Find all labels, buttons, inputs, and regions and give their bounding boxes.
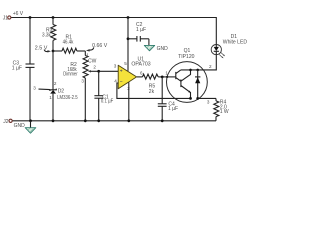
svg-text:GND: GND <box>14 123 26 129</box>
potentiometer R2 (Dimmer) <box>63 51 98 121</box>
capacitor C1 <box>94 71 113 121</box>
svg-text:0.1 µF: 0.1 µF <box>101 99 113 105</box>
svg-text:J1: J1 <box>3 16 9 22</box>
wire bottom ground rail <box>12 120 216 122</box>
svg-text:GND: GND <box>157 46 169 52</box>
svg-text:White LED: White LED <box>223 39 248 45</box>
svg-text:2: 2 <box>209 64 212 69</box>
junction rail at U1 pin2 <box>127 119 130 122</box>
wiper arrow of R2 <box>90 70 99 72</box>
internal protection diode <box>197 70 199 99</box>
ground symbol near C2 <box>144 45 168 52</box>
junction rail at C1 <box>97 119 100 122</box>
junction on rail at R3 branch <box>52 16 55 19</box>
svg-text:D2: D2 <box>58 89 65 95</box>
connector J2 <box>9 119 12 122</box>
wire top rail +6V <box>11 18 217 45</box>
svg-text:46.4k: 46.4k <box>63 40 74 46</box>
base pin 1 entry <box>166 76 168 78</box>
junction node 2.5V <box>52 50 55 53</box>
svg-text:3.3k: 3.3k <box>42 33 51 39</box>
svg-text:+6 V: +6 V <box>13 11 24 17</box>
wire U1 pin4 feedback L <box>117 83 191 98</box>
wire gnd stub <box>30 121 32 128</box>
wire U1 pin5 supply <box>127 18 129 71</box>
svg-text:1: 1 <box>86 53 89 58</box>
junction rail at D2 <box>52 119 55 122</box>
svg-text:3: 3 <box>33 86 36 91</box>
svg-text:2: 2 <box>93 65 96 70</box>
svg-text:6: 6 <box>140 71 143 76</box>
svg-text:3: 3 <box>114 64 117 69</box>
op-amp U1 OPA703 <box>114 57 151 91</box>
capacitor C3 <box>12 61 35 72</box>
wire C3 branch lower <box>29 67 31 120</box>
wire emitter to R4 <box>199 97 217 99</box>
svg-text:2.5 V: 2.5 V <box>35 45 48 51</box>
junction on rail at U1 supply branch <box>127 16 130 19</box>
svg-text:1 µF: 1 µF <box>12 65 22 71</box>
junction C2 tap <box>127 37 130 40</box>
ground symbol bottom <box>25 128 36 134</box>
transistor Q1 TIP120 <box>165 48 207 102</box>
resistor R3 <box>42 18 56 52</box>
svg-text:1: 1 <box>165 71 168 76</box>
svg-text:OPA703: OPA703 <box>131 62 150 68</box>
internal collector rail <box>181 69 204 71</box>
darlington second transistor <box>180 79 182 87</box>
junction wiper node <box>97 70 100 73</box>
zener reference D2 LM336-2.5 <box>33 81 78 121</box>
svg-text:3: 3 <box>81 79 84 84</box>
svg-text:3: 3 <box>207 100 210 105</box>
wire U1 +IN from wiper node <box>99 70 119 72</box>
wire C3 branch upper <box>29 18 31 65</box>
svg-text:5: 5 <box>124 61 127 66</box>
LED emission arrows <box>219 52 224 57</box>
svg-text:1 µF: 1 µF <box>168 106 178 112</box>
pin 3 stub of D2 <box>39 88 50 91</box>
darlington first transistor <box>175 72 177 79</box>
wire D2 branch upper <box>52 51 54 90</box>
svg-text:LM336-2.5: LM336-2.5 <box>57 95 78 101</box>
junction rail at C4 <box>161 119 164 122</box>
resistor R5 <box>137 74 168 95</box>
wire U1 pin2 to ground rail <box>128 82 130 121</box>
connector J1 <box>8 16 11 19</box>
wire C2 to ground <box>148 39 150 45</box>
junction rail at gnd stub <box>29 119 32 122</box>
svg-text:1 W: 1 W <box>220 109 229 115</box>
svg-text:1: 1 <box>49 95 52 100</box>
node 0.66 V callout <box>86 43 108 51</box>
svg-text:TIP120: TIP120 <box>178 54 195 60</box>
emitter node junctions <box>189 97 192 100</box>
svg-text:J2: J2 <box>3 119 9 125</box>
resistor R4 <box>214 98 229 120</box>
junction on rail at C3 branch <box>29 16 32 19</box>
resistor R1 <box>53 35 85 54</box>
svg-text:Dimmer: Dimmer <box>63 71 78 77</box>
svg-text:0.66 V: 0.66 V <box>92 43 108 49</box>
node 2.5 V callout <box>35 45 51 52</box>
svg-text:2k: 2k <box>149 89 155 95</box>
junction rail at R2 <box>84 119 87 122</box>
capacitor C2 <box>128 22 149 42</box>
wire collector to LED <box>204 55 217 70</box>
junction R5 / C4 node <box>161 76 164 79</box>
svg-text:1 µF: 1 µF <box>136 27 146 33</box>
capacitor C4 <box>158 77 178 121</box>
svg-text:2: 2 <box>54 81 57 86</box>
LED D1 <box>211 34 247 58</box>
